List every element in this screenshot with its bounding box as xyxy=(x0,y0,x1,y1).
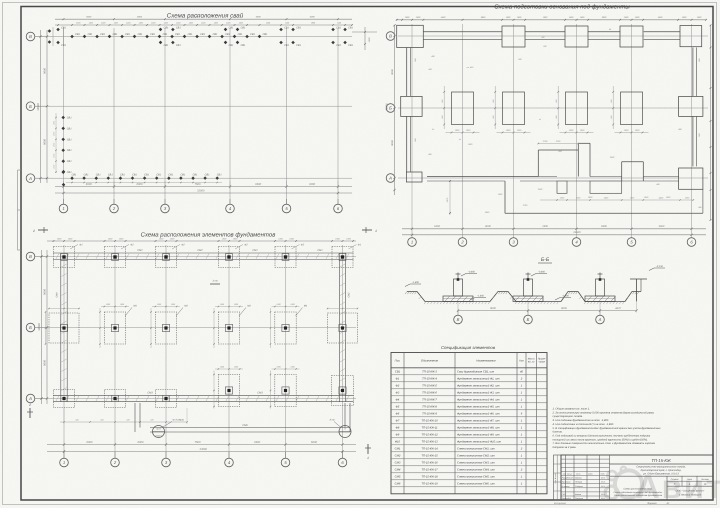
svg-text:Смирнов: Смирнов xyxy=(575,497,583,500)
svg-text:6600: 6600 xyxy=(255,183,261,186)
svg-text:СВ1: СВ1 xyxy=(229,44,234,47)
svg-text:толщиной из смеси песка крупно: толщиной из смеси песка крупного, средне… xyxy=(553,438,649,441)
title block inventory strip xyxy=(554,455,562,500)
svg-text:СМ6: СМ6 xyxy=(242,424,248,427)
svg-text:СВ1: СВ1 xyxy=(188,33,193,36)
pit plan grid horizontal axes xyxy=(398,35,708,37)
svg-text:6600: 6600 xyxy=(256,16,262,19)
svg-text:ТП-15-КЖ-18: ТП-15-КЖ-18 xyxy=(421,476,438,479)
svg-text:1500: 1500 xyxy=(53,154,56,158)
svg-text:В: В xyxy=(29,254,32,259)
pit foundation pads middle row xyxy=(452,92,474,125)
svg-text:СВ1: СВ1 xyxy=(238,33,243,36)
svg-text:Ф2: Ф2 xyxy=(244,244,248,247)
foundation plan left dimension line xyxy=(46,250,48,404)
svg-text:Ф10: Ф10 xyxy=(395,441,401,444)
frame left stamp marks xyxy=(18,169,22,171)
svg-text:Фундамент монолитный Ф6, шт: Фундамент монолитный Ф6, шт xyxy=(457,413,500,416)
foundation plan axis letter circles xyxy=(26,252,35,261)
svg-text:по А: по А xyxy=(156,428,161,431)
svg-text:Стена монолитная СМ1, шт: Стена монолитная СМ1, шт xyxy=(457,448,495,451)
svg-text:СМ4: СМ4 xyxy=(395,469,401,472)
pit plan axis number circles xyxy=(408,238,417,247)
section dimension line xyxy=(458,310,637,312)
svg-text:-1,800: -1,800 xyxy=(412,281,419,284)
svg-text:(зерк): (зерк) xyxy=(155,435,161,438)
svg-text:В: В xyxy=(389,34,392,39)
svg-text:ТП-15-КЖ-16: ТП-15-КЖ-16 xyxy=(421,462,438,465)
svg-text:В: В xyxy=(457,317,460,322)
foundation plan section marks xyxy=(38,229,48,231)
foundation pads bottom row xyxy=(218,375,239,407)
pit plan top dimension line xyxy=(396,19,706,21)
svg-text:Ф3: Ф3 xyxy=(396,392,400,395)
svg-text:СВ1: СВ1 xyxy=(67,149,72,152)
svg-text:05.15: 05.15 xyxy=(601,497,605,500)
svg-text:СМ1: СМ1 xyxy=(252,249,258,252)
svg-text:1: 1 xyxy=(62,206,64,211)
svg-text:СВ1: СВ1 xyxy=(200,33,205,36)
piles bottom row along axis А xyxy=(70,176,74,180)
svg-text:5. В спецификации фундаментов: 5. В спецификации фундаментов Вес фундам… xyxy=(553,427,662,430)
pit outline top edge with bumps xyxy=(397,25,424,47)
svg-text:Ф1: Ф1 xyxy=(79,244,83,247)
pile plan grid vertical axes xyxy=(63,28,65,204)
svg-text:СВ1: СВ1 xyxy=(193,173,198,176)
pile plan bottom dimension lines xyxy=(55,186,352,188)
svg-text:Кол: Кол xyxy=(519,360,524,363)
svg-text:Фундамент монолитный Ф3, шт: Фундамент монолитный Ф3, шт xyxy=(457,392,500,395)
svg-text:СВ1: СВ1 xyxy=(67,160,72,163)
svg-text:2: 2 xyxy=(32,229,35,233)
svg-text:СВ1: СВ1 xyxy=(176,27,181,30)
foundation pads middle row xyxy=(104,312,125,344)
svg-text:Петров: Петров xyxy=(575,481,582,484)
svg-text:пл. 450: пл. 450 xyxy=(467,66,475,69)
svg-text:Фундамент монолитный Ф7, шт: Фундамент монолитный Ф7, шт xyxy=(457,420,500,423)
svg-text:Стена монолитная СМ4, шт: Стена монолитная СМ4, шт xyxy=(457,469,495,472)
piles left column xyxy=(61,116,65,120)
svg-text:СМ3: СМ3 xyxy=(257,391,263,394)
svg-text:СВ1: СВ1 xyxy=(176,44,181,47)
svg-text:ТП-15-КЖ-17: ТП-15-КЖ-17 xyxy=(421,469,438,472)
perimeter monolithic walls xyxy=(53,252,354,254)
svg-text:1: 1 xyxy=(63,460,65,465)
svg-text:9000: 9000 xyxy=(44,139,47,145)
svg-text:Кол.уч: Кол.уч xyxy=(567,473,572,476)
svg-text:Н.контр.: Н.контр. xyxy=(562,485,570,488)
svg-text:СВ1: СВ1 xyxy=(296,44,301,47)
svg-text:6300: 6300 xyxy=(601,225,607,228)
svg-text:Проверил: Проверил xyxy=(562,481,572,484)
svg-text:18000: 18000 xyxy=(386,103,389,111)
svg-text:Стена монолитная СМ6, шт: Стена монолитная СМ6, шт xyxy=(457,483,495,486)
svg-text:СВ1: СВ1 xyxy=(88,33,93,36)
svg-text:СВ1: СВ1 xyxy=(61,27,66,30)
svg-text:9000: 9000 xyxy=(561,307,567,310)
pit plan bottom dimension lines xyxy=(402,228,706,230)
svg-text:1500: 1500 xyxy=(53,143,56,147)
svg-text:2400: 2400 xyxy=(537,188,543,191)
svg-text:Фундамент монолитный Ф2, шт: Фундамент монолитный Ф2, шт xyxy=(457,385,500,388)
svg-text:ТП-15-КЖ-12: ТП-15-КЖ-12 xyxy=(421,434,438,437)
svg-text:Стена монолитная СМ5, шт: Стена монолитная СМ5, шт xyxy=(457,476,495,479)
svg-text:СВ1: СВ1 xyxy=(164,27,169,30)
svg-text:Б: Б xyxy=(29,104,32,109)
svg-text:Б: Б xyxy=(389,106,392,111)
svg-text:А: А xyxy=(598,317,602,322)
svg-text:СВ1: СВ1 xyxy=(263,33,268,36)
svg-text:6000: 6000 xyxy=(87,441,93,444)
svg-text:21900: 21900 xyxy=(572,231,581,234)
svg-text:СВ1: СВ1 xyxy=(348,44,353,47)
svg-text:СВ1: СВ1 xyxy=(84,173,89,176)
foundation plan top dimension line xyxy=(47,240,356,242)
svg-text:6. Под подошвой из второго Бет: 6. Под подошвой из второго Бетона выполн… xyxy=(553,434,651,437)
svg-text:1: 1 xyxy=(375,229,377,233)
svg-text:СМ1: СМ1 xyxy=(395,448,401,451)
svg-text:-1,800: -1,800 xyxy=(477,294,484,297)
detail circle right xyxy=(339,426,351,438)
svg-text:ТП-15-КЖ-8: ТП-15-КЖ-8 xyxy=(422,406,437,409)
svg-text:ТП-15-КЖ: ТП-15-КЖ xyxy=(651,458,672,463)
svg-text:п1: п1 xyxy=(539,118,541,121)
svg-text:9000: 9000 xyxy=(44,289,47,295)
svg-text:Ф4: Ф4 xyxy=(396,399,400,402)
svg-text:СВ1: СВ1 xyxy=(67,127,72,130)
detail circle left xyxy=(153,426,165,438)
svg-text:ТП-15-КЖ-14: ТП-15-КЖ-14 xyxy=(421,448,438,451)
foundation plan pad labels xyxy=(70,245,78,250)
svg-text:ТП-15-КЖ-13: ТП-15-КЖ-13 xyxy=(421,441,438,444)
svg-text:Утвердил: Утвердил xyxy=(562,497,572,500)
section ground hatching xyxy=(405,292,407,295)
foundation plan bottom dimension lines xyxy=(47,444,356,446)
svg-text:2700: 2700 xyxy=(555,140,561,143)
pit outline bottom edge xyxy=(427,176,538,178)
svg-text:9000: 9000 xyxy=(391,140,394,146)
svg-text:Ф5: Ф5 xyxy=(396,406,400,409)
svg-text:-0,800: -0,800 xyxy=(468,270,475,273)
svg-text:1500: 1500 xyxy=(53,165,56,169)
svg-text:Ф9: Ф9 xyxy=(396,434,400,437)
svg-text:Б: Б xyxy=(29,325,32,330)
svg-text:СВ1: СВ1 xyxy=(163,33,168,36)
pit plan grid vertical axes xyxy=(411,24,413,238)
svg-text:СВ1: СВ1 xyxy=(150,33,155,36)
svg-text:А: А xyxy=(388,176,392,181)
svg-text:Фундамент монолитный Ф1, шт: Фундамент монолитный Ф1, шт xyxy=(457,378,500,381)
svg-text:ТП-15-КЖ-5: ТП-15-КЖ-5 xyxy=(422,385,437,388)
svg-text:6000: 6000 xyxy=(310,16,316,19)
svg-text:СВ1: СВ1 xyxy=(61,44,66,47)
svg-text:А пм: А пм xyxy=(328,419,334,422)
svg-text:СВ1: СВ1 xyxy=(241,27,246,30)
svg-text:Фундамент монолитный Ф10, шт: Фундамент монолитный Ф10, шт xyxy=(457,441,502,444)
svg-text:Ф1: Ф1 xyxy=(396,378,400,381)
svg-text:7500: 7500 xyxy=(195,183,201,186)
svg-text:Наименование: Наименование xyxy=(476,359,496,363)
svg-text:33000: 33000 xyxy=(199,448,207,451)
section right retaining edge xyxy=(636,279,638,302)
svg-text:Ф2: Ф2 xyxy=(181,244,185,247)
svg-text:битумом за 2 раза.: битумом за 2 раза. xyxy=(553,446,577,449)
svg-text:СМ6: СМ6 xyxy=(395,483,401,486)
svg-text:Фундамент монолитный Ф9, шт: Фундамент монолитный Ф9, шт xyxy=(457,434,500,437)
svg-text:СВ1: СВ1 xyxy=(164,44,169,47)
svg-text:№док.: №док. xyxy=(588,473,593,476)
pile plan left dimension line xyxy=(46,30,48,183)
svg-text:СМ3: СМ3 xyxy=(395,462,401,465)
svg-text:СВ1: СВ1 xyxy=(348,27,353,30)
svg-text:Приме-: Приме- xyxy=(538,357,546,360)
svg-text:СВ1: СВ1 xyxy=(175,33,180,36)
svg-text:СВ1: СВ1 xyxy=(395,371,401,374)
svg-text:Ф2: Ф2 xyxy=(301,244,305,247)
foundation plan grid vertical axes xyxy=(63,245,65,458)
svg-text:СВ1: СВ1 xyxy=(125,33,130,36)
piles top row along axis В xyxy=(70,35,74,39)
svg-text:Сидоров: Сидоров xyxy=(575,485,583,488)
svg-text:05.15: 05.15 xyxy=(601,477,605,480)
pile plan axis number circles xyxy=(59,204,68,213)
svg-text:2400: 2400 xyxy=(609,156,615,159)
svg-text:Фундамент монолитный Ф8, шт: Фундамент монолитный Ф8, шт xyxy=(457,427,500,430)
svg-text:СВ1: СВ1 xyxy=(96,173,101,176)
svg-text:п1: п1 xyxy=(459,138,461,141)
foundation pads top row xyxy=(54,247,75,268)
svg-text:7500: 7500 xyxy=(195,441,201,444)
svg-text:СВ1: СВ1 xyxy=(75,33,80,36)
svg-text:СВ1: СВ1 xyxy=(120,173,125,176)
svg-text:2. За относительную отметку 0,: 2. За относительную отметку 0,000 принят… xyxy=(552,411,655,414)
svg-text:Ф2: Ф2 xyxy=(396,385,400,388)
pile plan right-top dim bracket xyxy=(352,31,377,33)
svg-text:существующего склада.: существующего склада. xyxy=(553,415,584,418)
svg-text:2: 2 xyxy=(28,403,31,407)
piles corner cluster dim marks xyxy=(52,27,54,46)
svg-text:1: 1 xyxy=(367,456,369,460)
pit plan lower-left dim marks xyxy=(449,181,451,215)
svg-text:Сваи буронабивные СВ1, шт: Сваи буронабивные СВ1, шт xyxy=(457,371,495,374)
svg-text:9000: 9000 xyxy=(490,307,496,310)
svg-text:Ф7: Ф7 xyxy=(396,420,400,423)
svg-text:СВ1: СВ1 xyxy=(296,27,301,30)
foundation plan lower-left small dim line xyxy=(60,421,187,423)
svg-text:ТП-15-КЖ-10: ТП-15-КЖ-10 xyxy=(421,420,438,423)
svg-text:6000: 6000 xyxy=(86,183,92,186)
title block frame xyxy=(561,455,713,500)
svg-text:СМ2: СМ2 xyxy=(348,292,351,298)
svg-text:6000: 6000 xyxy=(86,16,92,19)
svg-text:ТП-15-КЖ-7: ТП-15-КЖ-7 xyxy=(422,399,437,402)
svg-text:ТП-15-КЖ-3: ТП-15-КЖ-3 xyxy=(422,371,437,374)
svg-text:Схема подготовки основания под: Схема подготовки основания под фундамент… xyxy=(494,4,630,11)
svg-text:Поз.: Поз. xyxy=(395,359,401,363)
pile plan grid horizontal axes xyxy=(47,36,352,38)
svg-text:3. Низ подошвы фундаментов на: 3. Низ подошвы фундаментов на отм. -1,80… xyxy=(553,419,610,422)
svg-text:18000: 18000 xyxy=(38,323,41,331)
svg-text:-0,800: -0,800 xyxy=(538,270,545,273)
svg-text:СВ1: СВ1 xyxy=(336,27,341,30)
svg-text:СВ1: СВ1 xyxy=(67,116,72,119)
svg-text:СВ1: СВ1 xyxy=(67,138,72,141)
svg-text:СВ1: СВ1 xyxy=(108,173,113,176)
pit outline right edge xyxy=(692,48,694,97)
title block project name xyxy=(610,475,714,477)
svg-text:СМ1: СМ1 xyxy=(137,249,143,252)
svg-text:СВ1: СВ1 xyxy=(168,173,173,176)
svg-text:9000: 9000 xyxy=(44,360,47,366)
svg-text:6000: 6000 xyxy=(434,225,440,228)
svg-text:40: 40 xyxy=(520,371,523,374)
svg-text:Ф8: Ф8 xyxy=(396,427,400,430)
svg-text:7. Все боковые поверхности мон: 7. Все боковые поверхности монолитных ст… xyxy=(553,442,656,445)
section axis circles xyxy=(454,315,463,324)
svg-text:А: А xyxy=(28,396,32,401)
pile plan axis letter circles xyxy=(26,32,35,41)
svg-text:9000: 9000 xyxy=(391,69,394,75)
title block stage cells xyxy=(666,476,668,500)
svg-text:СВ1: СВ1 xyxy=(225,33,230,36)
svg-text:ТП-15-КЖ-9: ТП-15-КЖ-9 xyxy=(422,413,437,416)
svg-text:6000: 6000 xyxy=(137,183,143,186)
svg-text:9000: 9000 xyxy=(44,68,47,74)
svg-text:СВ1: СВ1 xyxy=(156,173,161,176)
svg-text:2700: 2700 xyxy=(522,204,528,207)
avito watermark logo circles xyxy=(605,467,642,499)
svg-text:1500: 1500 xyxy=(368,37,371,43)
svg-text:СВ1: СВ1 xyxy=(138,33,143,36)
svg-text:2400: 2400 xyxy=(603,197,609,200)
svg-text:6000: 6000 xyxy=(138,441,144,444)
svg-text:Стена монолитная СМ3, шт: Стена монолитная СМ3, шт xyxy=(457,462,495,465)
svg-text:Фундамент монолитный Ф4, шт: Фундамент монолитный Ф4, шт xyxy=(457,399,500,402)
svg-text:05.15: 05.15 xyxy=(601,481,605,484)
svg-text:Стена монолитная СМ2, шт: Стена монолитная СМ2, шт xyxy=(457,455,495,458)
svg-text:1500: 1500 xyxy=(53,132,56,136)
svg-text:СВ1: СВ1 xyxy=(241,44,246,47)
svg-text:33000: 33000 xyxy=(197,189,205,192)
pit plan axis letter circles xyxy=(386,32,395,41)
svg-text:6600: 6600 xyxy=(254,441,260,444)
pit plan left dimension line xyxy=(394,25,396,195)
svg-text:СМ2: СМ2 xyxy=(197,249,203,252)
svg-text:Обозначение: Обозначение xyxy=(421,359,439,363)
svg-text:ТП-15-КЖ-19: ТП-15-КЖ-19 xyxy=(421,483,438,486)
svg-text:ед., кг: ед., кг xyxy=(528,360,536,363)
svg-text:3 пм: 3 пм xyxy=(213,280,218,283)
lower monolithic wall СМ6 xyxy=(150,427,350,429)
svg-text:Б: Б xyxy=(527,317,530,322)
svg-text:2700: 2700 xyxy=(542,140,548,143)
specification table grid xyxy=(391,353,547,494)
svg-text:по А (зерк): по А (зерк) xyxy=(172,419,184,422)
svg-text:СМ4: СМ4 xyxy=(56,292,59,298)
svg-text:4470: 4470 xyxy=(615,307,621,310)
svg-text:Копировал: Копировал xyxy=(554,502,567,505)
svg-text:СМ2: СМ2 xyxy=(395,455,401,458)
pit outline left edge xyxy=(406,48,408,97)
svg-text:В: В xyxy=(29,34,32,39)
svg-text:Инв. № подл.: Инв. № подл. xyxy=(554,472,557,483)
svg-text:СВ1: СВ1 xyxy=(217,173,222,176)
svg-text:СВ1: СВ1 xyxy=(113,33,118,36)
svg-text:СВ1: СВ1 xyxy=(132,173,137,176)
svg-text:4. Низ подготовки из бетона В7: 4. Низ подготовки из бетона В7,5 на отм.… xyxy=(553,423,615,426)
svg-text:болтов.: болтов. xyxy=(553,431,563,434)
svg-text:СВ1: СВ1 xyxy=(213,33,218,36)
section elevation flags xyxy=(461,274,466,277)
svg-text:ТП-15-КЖ-4: ТП-15-КЖ-4 xyxy=(422,378,437,381)
svg-text:СВ1: СВ1 xyxy=(284,44,289,47)
svg-text:Разработал: Разработал xyxy=(562,477,574,480)
svg-text:СМ3: СМ3 xyxy=(147,391,153,394)
svg-text:Иванов: Иванов xyxy=(575,477,581,480)
pile plan top dimension line xyxy=(55,24,352,26)
svg-text:ГИП: ГИП xyxy=(562,493,566,496)
svg-text:1: 1 xyxy=(411,240,413,245)
svg-text:ТП-15-КЖ-15: ТП-15-КЖ-15 xyxy=(421,455,438,458)
svg-text:СВ1: СВ1 xyxy=(284,27,289,30)
svg-text:СВ1: СВ1 xyxy=(180,173,185,176)
foundation plan axis number circles xyxy=(60,458,69,467)
svg-text:чание: чание xyxy=(539,360,546,363)
svg-text:СВ1: СВ1 xyxy=(144,173,149,176)
svg-text:6000: 6000 xyxy=(485,225,491,228)
pit plan right dimension line xyxy=(710,25,712,220)
svg-text:ТП-15-КЖ-6: ТП-15-КЖ-6 xyxy=(422,392,437,395)
svg-text:ТП-15-КЖ-11: ТП-15-КЖ-11 xyxy=(421,427,438,430)
svg-text:-1,800: -1,800 xyxy=(562,294,569,297)
svg-text:СВ1: СВ1 xyxy=(229,27,234,30)
svg-text:6000: 6000 xyxy=(309,183,315,186)
svg-text:1. Общие указания см. лист 1.: 1. Общие указания см. лист 1. xyxy=(553,408,591,411)
svg-text:СВ1: СВ1 xyxy=(250,33,255,36)
svg-text:СВ1: СВ1 xyxy=(100,33,105,36)
svg-text:СВ1: СВ1 xyxy=(205,173,210,176)
svg-text:6000: 6000 xyxy=(311,441,317,444)
svg-text:18000: 18000 xyxy=(37,103,40,111)
svg-text:СМ5: СМ5 xyxy=(395,476,401,479)
svg-text:7400: 7400 xyxy=(542,225,548,228)
svg-text:Ф1: Ф1 xyxy=(358,244,362,247)
pit middle staircase outline xyxy=(538,149,578,151)
svg-text:Масса: Масса xyxy=(528,357,536,360)
svg-text:7500: 7500 xyxy=(195,16,201,19)
svg-text:Спецификация элементов: Спецификация элементов xyxy=(441,345,496,350)
foundation plan grid horizontal axes xyxy=(47,256,356,258)
svg-text:А: А xyxy=(28,176,32,181)
svg-text:6000: 6000 xyxy=(137,16,143,19)
section pedestal А xyxy=(443,296,473,302)
svg-text:-0,150: -0,150 xyxy=(656,265,663,268)
svg-text:СВ1: СВ1 xyxy=(72,173,77,176)
svg-text:05.15: 05.15 xyxy=(601,485,605,488)
svg-text:Фундамент монолитный Ф5, шт: Фундамент монолитный Ф5, шт xyxy=(457,406,500,409)
svg-text:Ф2: Ф2 xyxy=(130,244,134,247)
title block designation xyxy=(610,463,714,465)
svg-text:Авито: Авито xyxy=(636,468,720,505)
svg-text:СВ1: СВ1 xyxy=(67,171,72,174)
svg-text:Ф6: Ф6 xyxy=(396,413,400,416)
svg-text:СМ1: СМ1 xyxy=(317,249,323,252)
svg-text:Б-Б: Б-Б xyxy=(541,257,550,263)
svg-text:Лист: Лист xyxy=(575,473,581,476)
svg-text:СВ1: СВ1 xyxy=(336,44,341,47)
title block left grid xyxy=(565,455,567,500)
svg-text:Подп.: Подп. xyxy=(601,473,606,476)
